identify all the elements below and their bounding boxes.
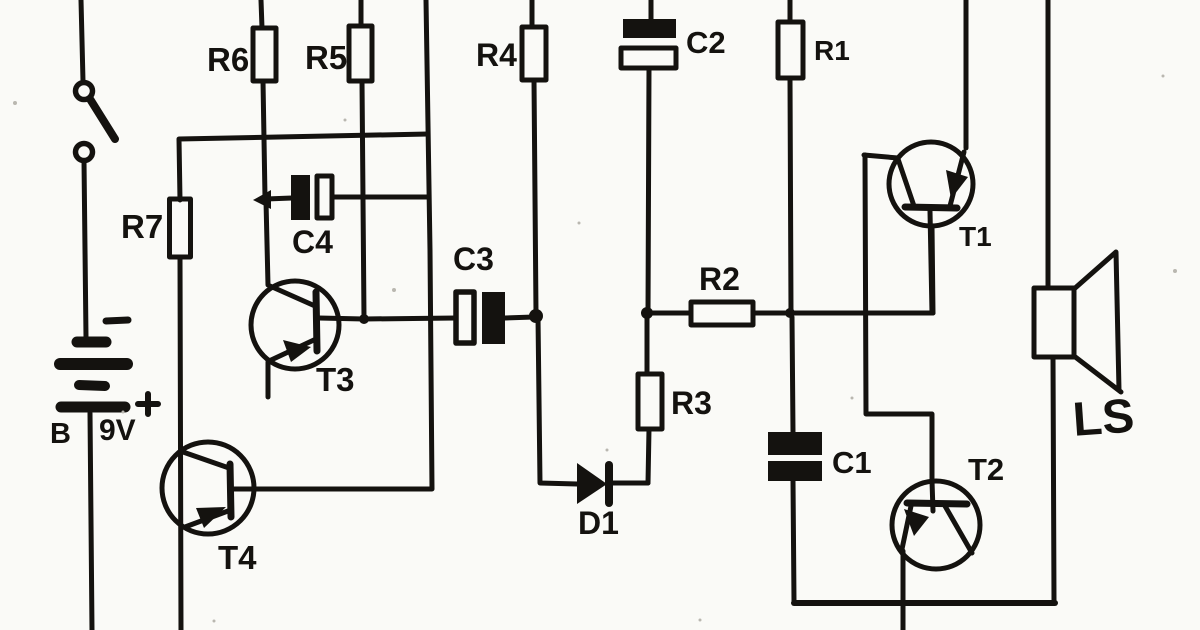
capacitor C1 top plate bbox=[768, 432, 822, 455]
wire R2 left lead bbox=[647, 311, 691, 316]
transistor T2 base bar bbox=[907, 503, 967, 504]
wire R6 top bbox=[261, 0, 262, 28]
battery B plate 1 bbox=[77, 337, 106, 348]
transistor T1 base bar bbox=[905, 207, 957, 208]
transistor T4 body bbox=[162, 442, 254, 534]
wire T1 base down to T2 bbox=[865, 155, 932, 481]
wire R5 top bbox=[359, 0, 364, 26]
transistor T4 collector slant bbox=[183, 452, 229, 468]
wire C2 bottom lead bbox=[648, 68, 649, 313]
svg-text:T2: T2 bbox=[968, 452, 1004, 487]
wire R7 top rail y137 bbox=[179, 134, 428, 200]
svg-text:C4: C4 bbox=[292, 224, 333, 260]
junction arrow at C4 node bbox=[253, 190, 271, 209]
transistor T2 emitter slant bbox=[902, 506, 911, 549]
wire bottom rail bbox=[794, 600, 1055, 606]
node junction C2-R2-R3 bbox=[641, 307, 653, 319]
wire T3 base to C3 bbox=[319, 318, 456, 319]
wire R4 top bbox=[530, 0, 535, 27]
wire switch to battery bbox=[84, 161, 86, 337]
svg-text:R1: R1 bbox=[814, 35, 850, 66]
wire T1 collector top bbox=[964, 0, 969, 148]
svg-text:R2: R2 bbox=[699, 261, 740, 297]
battery B plate 2 bbox=[60, 358, 127, 370]
capacitor C3 right plate bbox=[482, 292, 505, 344]
wire C4 right lead bbox=[333, 195, 429, 200]
capacitor C2 bottom plate bbox=[621, 48, 676, 68]
resistor R2 bbox=[691, 302, 753, 325]
svg-text:R7: R7 bbox=[121, 208, 163, 245]
svg-text:D1: D1 bbox=[578, 505, 619, 541]
wire C1 bottom to rail bbox=[793, 481, 794, 601]
transistor T4 base bar bbox=[230, 464, 231, 517]
wire C2 top bbox=[649, 0, 654, 19]
diode D1 triangle bbox=[577, 463, 607, 504]
svg-text:9V: 9V bbox=[99, 414, 136, 447]
transistor T2 emitter arrow bbox=[904, 509, 929, 536]
speaker LS frame bbox=[1034, 288, 1074, 357]
wire R5 bottom bbox=[362, 81, 364, 318]
svg-text:R4: R4 bbox=[476, 37, 517, 73]
svg-text:C3: C3 bbox=[453, 241, 494, 277]
svg-text:T4: T4 bbox=[218, 539, 257, 576]
svg-text:R5: R5 bbox=[305, 39, 347, 76]
transistor T4 emitter arrow bbox=[196, 507, 226, 528]
svg-text:T3: T3 bbox=[316, 361, 355, 398]
transistor T2 body bbox=[892, 481, 980, 569]
capacitor C4 right plate bbox=[317, 176, 332, 218]
svg-text:R3: R3 bbox=[671, 385, 712, 421]
wire T3 collector bbox=[266, 201, 268, 285]
switch S1 lower contact bbox=[76, 144, 93, 161]
wire T1 base lead bbox=[864, 155, 898, 158]
svg-text:LS: LS bbox=[1071, 390, 1136, 447]
transistor T4 emitter slant bbox=[185, 511, 228, 527]
wire feedback vertical to T4 base bbox=[231, 0, 432, 489]
resistor R4 bbox=[522, 27, 546, 80]
wire R3 top lead bbox=[645, 316, 650, 374]
transistor T1 emitter arrow bbox=[946, 170, 968, 199]
wire R3 bottom lead bbox=[648, 429, 649, 483]
resistor R5 bbox=[349, 26, 372, 81]
capacitor C2 top plate bbox=[623, 19, 676, 38]
resistor R6 bbox=[253, 28, 276, 81]
svg-text:R6: R6 bbox=[207, 41, 249, 78]
resistor R3 bbox=[638, 374, 662, 429]
diode D1 cathode bar bbox=[605, 465, 613, 503]
transistor T3 emitter slant bbox=[269, 339, 316, 361]
svg-text:C1: C1 bbox=[832, 445, 872, 480]
transistor T3 collector slant bbox=[270, 286, 315, 306]
wire R1 top bbox=[788, 0, 793, 22]
svg-text:B: B bbox=[50, 418, 71, 450]
svg-text:C2: C2 bbox=[686, 25, 726, 60]
node junction R4-C3 bbox=[529, 309, 543, 323]
transistor T2 collector slant bbox=[945, 506, 972, 553]
wire T2 emitter to bottom bbox=[901, 551, 906, 630]
capacitor C3 left plate bbox=[456, 292, 474, 343]
wire battery negative to bottom bbox=[90, 413, 92, 630]
wire junction to C1 bbox=[792, 317, 793, 432]
capacitor C4 left plate bbox=[291, 175, 310, 220]
node junction R1-R2 bbox=[785, 308, 795, 318]
wire switch top feed bbox=[81, 0, 83, 81]
wire LS bottom bbox=[1053, 357, 1054, 601]
wire R1 bottom bbox=[790, 78, 791, 313]
transistor T3 body bbox=[251, 281, 339, 369]
transistor T1 base slant bbox=[898, 159, 914, 206]
battery B plate 3 bbox=[79, 385, 105, 386]
battery B minus sign bbox=[106, 320, 128, 321]
resistor R1 bbox=[778, 22, 803, 78]
battery B plus sign bbox=[138, 394, 158, 414]
svg-text:T1: T1 bbox=[959, 221, 992, 252]
wire T2 collector entry bbox=[932, 481, 933, 511]
wire T1 emitter riser bbox=[932, 226, 933, 313]
wire R6 bottom bbox=[263, 81, 265, 197]
transistor T1 collector slant bbox=[950, 152, 964, 206]
transistor T3 base bar bbox=[316, 292, 317, 351]
wire T1 emitter bbox=[930, 211, 932, 313]
node junction R5-T3 base bbox=[359, 314, 369, 324]
switch S1 upper contact bbox=[76, 83, 93, 100]
wire LS feed top bbox=[1046, 0, 1051, 288]
wire D1 to R3 bbox=[613, 481, 648, 486]
wire R2 right rail bbox=[753, 311, 933, 316]
capacitor C1 bottom plate bbox=[768, 461, 822, 481]
switch S1 arm bbox=[90, 99, 115, 139]
wire junction to D1 anode bbox=[538, 317, 577, 484]
wire R7 bottom through T4 bbox=[180, 257, 181, 630]
wire R4 bottom bbox=[534, 80, 536, 313]
transistor T1 body bbox=[889, 142, 973, 226]
transistor T3 emitter arrow bbox=[283, 340, 311, 362]
speaker LS cone bbox=[1074, 252, 1121, 392]
resistor R7 bbox=[170, 199, 191, 257]
wire C3 right lead bbox=[505, 317, 534, 318]
transistor T3 emitter stub bbox=[266, 362, 271, 397]
wire C4 left lead bbox=[266, 198, 292, 199]
battery B plate 4 bbox=[61, 402, 125, 413]
